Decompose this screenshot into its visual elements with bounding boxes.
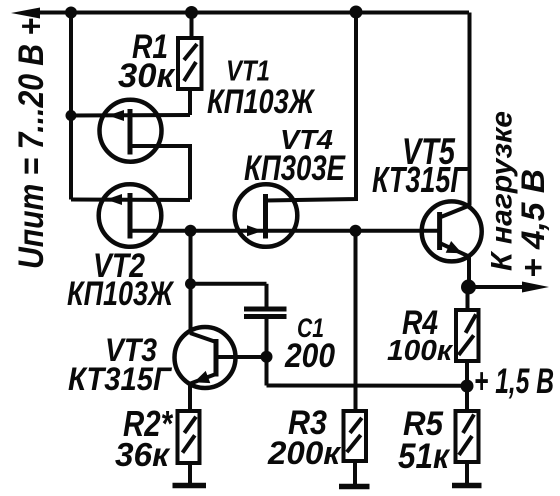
svg-text:36к: 36к <box>115 436 171 473</box>
wire VT5 collector lead <box>440 206 470 218</box>
wire VT3 emitter to R2 lead <box>188 383 192 411</box>
node top rail VT4 drain <box>350 6 363 19</box>
wire R2 bottom lead <box>188 463 192 483</box>
resistor R4 <box>456 310 479 361</box>
wire +1.5V horizontal line <box>267 384 468 388</box>
wire output arrow line <box>469 285 528 289</box>
svg-text:+ 4,5 В: + 4,5 В <box>515 169 551 278</box>
wire C1 bottom lead <box>265 318 269 386</box>
node A collector/C1 <box>185 278 196 289</box>
wire VT5 emitter lead <box>440 243 469 287</box>
svg-text:КТ315Г: КТ315Г <box>372 159 468 200</box>
wire top supply rail <box>30 11 469 15</box>
svg-text:КП103Ж: КП103Ж <box>207 83 316 121</box>
svg-text:30к: 30к <box>118 57 176 95</box>
wire output node to R4 <box>466 287 470 310</box>
wire right vertical (top rail to VT5 collector) <box>468 13 472 206</box>
arrow output right <box>522 282 549 293</box>
wire left vertical from top rail <box>69 13 73 200</box>
resistor R1 <box>178 38 202 89</box>
node output <box>461 280 476 295</box>
svg-text:51к: 51к <box>398 437 451 476</box>
wire VT2 gate/drain line <box>71 198 190 203</box>
node +1.5V <box>461 380 474 393</box>
transistor VT2 <box>99 184 162 247</box>
wire main rail VT2 source to VT5 base <box>130 229 440 233</box>
node top rail R1 <box>185 6 198 19</box>
svg-text:Uпит = 7...20 В +: Uпит = 7...20 В + <box>12 18 51 269</box>
wire VT1 gate/drain line <box>71 113 190 118</box>
resistor R5 <box>456 411 479 462</box>
wire node A to C1 horizontal <box>191 282 267 286</box>
transistor VT1 <box>100 100 162 162</box>
ground R2 <box>173 483 207 489</box>
wire R1 bottom lead <box>188 89 192 115</box>
arrow supply input left <box>11 8 40 19</box>
svg-text:КТ315Г: КТ315Г <box>68 361 172 397</box>
transistor VT4 <box>235 184 298 247</box>
wire VT4 drain to top rail <box>266 13 357 201</box>
svg-text:КП103Ж: КП103Ж <box>67 275 175 313</box>
svg-text:К нагрузке: К нагрузке <box>486 111 519 271</box>
wire R4 bottom lead <box>465 361 469 386</box>
ground R5 <box>452 483 482 489</box>
wire R1 top lead <box>190 13 194 39</box>
capacitor C1 <box>244 309 287 317</box>
svg-text:КП303Е: КП303Е <box>244 149 346 188</box>
wire R3 bottom lead <box>353 461 357 484</box>
node top rail left <box>65 7 77 19</box>
ground R3 <box>339 484 370 490</box>
wire R3 vertical <box>354 231 358 411</box>
node left wire VT1 gate <box>66 110 77 121</box>
wire C1 top lead <box>265 284 269 307</box>
svg-text:100к: 100к <box>387 335 453 367</box>
resistor R2 <box>178 411 200 463</box>
transistor VT5 <box>422 201 482 261</box>
wire node to VT3 collector vertical <box>189 231 193 334</box>
node main rail VT3 <box>185 225 197 237</box>
svg-text:200: 200 <box>284 337 335 375</box>
transistor VT3 <box>175 327 236 388</box>
node C1/VT3 base <box>261 351 273 363</box>
resistor R3 <box>344 411 367 461</box>
wire R5 top lead <box>465 386 469 411</box>
wire R5 bottom lead <box>465 462 469 483</box>
node main rail R3 <box>350 225 362 237</box>
svg-text:+ 1,5 В: + 1,5 В <box>474 362 554 401</box>
svg-text:200к: 200к <box>267 435 342 471</box>
wire VT3 base lead <box>216 355 267 359</box>
wire VT1 source to VT2 drain bracket <box>130 146 190 200</box>
